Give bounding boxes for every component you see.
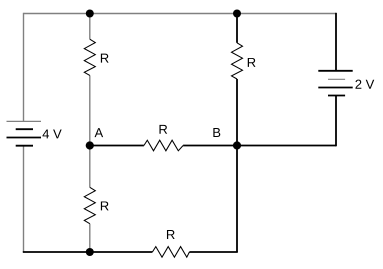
wire node B down to bottom wire (black)	[236, 146, 238, 253]
wire bottom right segment (black, R5 to corner under node B)	[189, 251, 237, 253]
label 4 V of battery V1	[43, 129, 62, 138]
label R of R3	[159, 125, 167, 134]
wire right upper (black, top-right corner down to 2V battery)	[335, 13, 337, 71]
node A junction dot	[86, 141, 94, 149]
wire R1 top lead (gray, top junction to R1)	[89, 14, 91, 40]
label R of R2	[248, 58, 256, 67]
battery V1 4V: long plate 3 (black)	[7, 137, 42, 139]
label node B	[213, 128, 220, 137]
wire R1 bottom lead (gray, R1 down to node A)	[89, 75, 91, 145]
wire R2 bottom lead (black, R2 down to node B)	[236, 79, 238, 146]
battery V2 2V: top long plate (black)	[318, 70, 352, 72]
wire node B to right loop (black)	[237, 145, 336, 147]
battery V1 4V: short plate 4 (black)	[16, 145, 33, 147]
wire bottom left segment (black, bottom-left corner to R5)	[23, 251, 153, 253]
label R of R4	[101, 201, 109, 210]
label node A	[95, 128, 104, 137]
battery V2 2V: short plate 4 (black)	[328, 95, 345, 97]
battery V1 4V: short plate 2 (black)	[16, 128, 33, 130]
wire R4 top lead (gray, node A down to R4)	[89, 146, 91, 188]
battery V1 4V: top long plate (gray)	[7, 120, 42, 122]
battery V2 2V: short plate 2 (gray)	[328, 78, 345, 80]
node B junction dot	[233, 141, 241, 149]
label R of R1	[101, 54, 109, 63]
wire right lower (black, 2V battery down to node-B wire)	[335, 96, 337, 147]
label 2 V of battery V2	[355, 80, 374, 89]
resistor R1 zigzag	[84, 39, 95, 75]
resistor R4 zigzag	[84, 187, 95, 223]
wire R2 top lead (black, top junction to R2)	[236, 14, 238, 43]
resistor R2 zigzag	[232, 43, 243, 79]
wire left upper (gray, top-left corner down to 4V battery)	[23, 13, 25, 122]
junction dot bottom	[86, 248, 94, 256]
wire left lower (gray, 4V battery down to bottom-left corner)	[23, 146, 25, 252]
resistor R5 zigzag	[152, 247, 189, 258]
wire top (node top net, gray)	[24, 13, 337, 15]
junction dot top-left	[86, 10, 94, 18]
resistor R3 zigzag	[144, 140, 183, 151]
junction dot top-right	[233, 10, 241, 18]
wire R3 to node B (black)	[183, 145, 237, 147]
wire node A to R3 (black)	[90, 145, 144, 147]
wire R4 bottom lead (gray, R4 down to bottom junction)	[89, 224, 91, 252]
label R of R5	[167, 230, 175, 239]
battery V2 2V: long plate 3 (black)	[318, 87, 352, 89]
